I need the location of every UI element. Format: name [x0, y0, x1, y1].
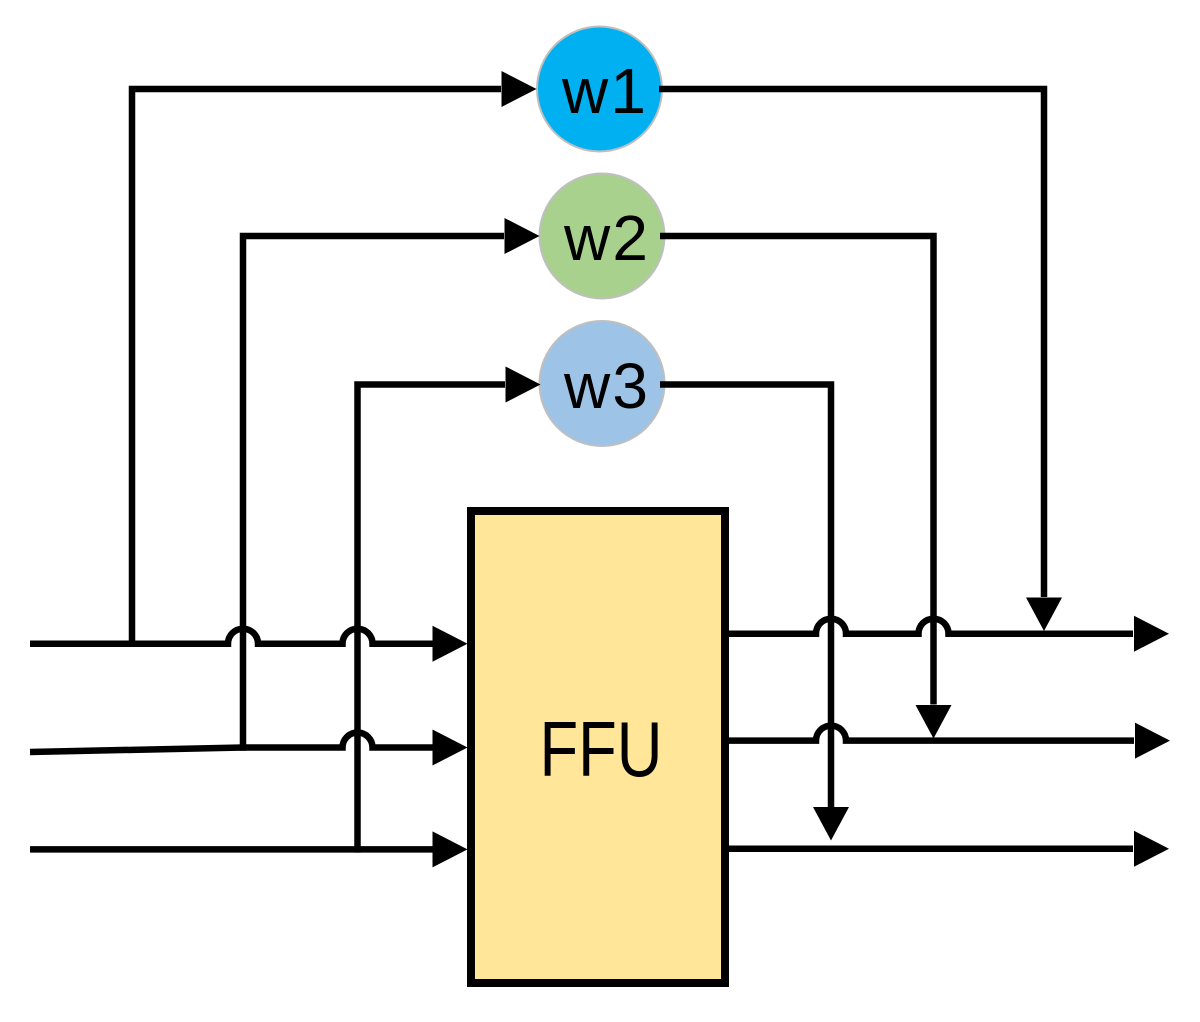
- wire output line 1 (hops over v6, v5): [729, 619, 1133, 634]
- arrowhead output 3: [1134, 831, 1169, 867]
- arrowhead into w3: [506, 367, 541, 403]
- arrowhead down onto output line 2: [916, 705, 952, 739]
- wire output line 2 (hop over v6): [729, 726, 1134, 741]
- wire input line 3: [30, 846, 434, 853]
- arrowhead input 2 into FFU: [433, 730, 468, 766]
- node w3: [540, 321, 665, 446]
- node w2: [540, 174, 665, 299]
- arrowhead input 3 into FFU: [433, 831, 468, 867]
- arrowhead output 1: [1134, 616, 1169, 652]
- arrowhead into w2: [505, 218, 540, 254]
- arrowhead down above output line 3: [813, 807, 849, 841]
- wire w3 feedback: right and down to output line 3: [660, 385, 831, 808]
- block FFU: [471, 511, 725, 983]
- wire w2 feedback: right and down to output line 2: [660, 236, 934, 705]
- svg-text:w2: w2: [563, 202, 648, 274]
- svg-text:w1: w1: [561, 55, 646, 127]
- wire output line 3: [729, 846, 1133, 853]
- arrowhead down onto output line 1: [1026, 598, 1062, 632]
- wire branch v3: line3 up to w3: [358, 385, 506, 853]
- arrowhead output 2: [1135, 723, 1170, 759]
- wire input line 1 (with hops over v2, v3): [30, 629, 434, 644]
- svg-text:w3: w3: [563, 350, 648, 422]
- node w1: [537, 27, 662, 152]
- svg-text:FFU: FFU: [540, 705, 663, 793]
- wire w1 feedback: right and down to output line 1: [659, 89, 1044, 597]
- arrowhead into w1: [502, 71, 537, 107]
- wire branch v2: line2 up to w2: [243, 236, 504, 751]
- arrowhead input 1 into FFU: [433, 626, 468, 662]
- wire branch v1: line1 up to w1: [132, 89, 501, 647]
- wire input line 2 (sloped left part, hop over v3): [30, 733, 434, 752]
